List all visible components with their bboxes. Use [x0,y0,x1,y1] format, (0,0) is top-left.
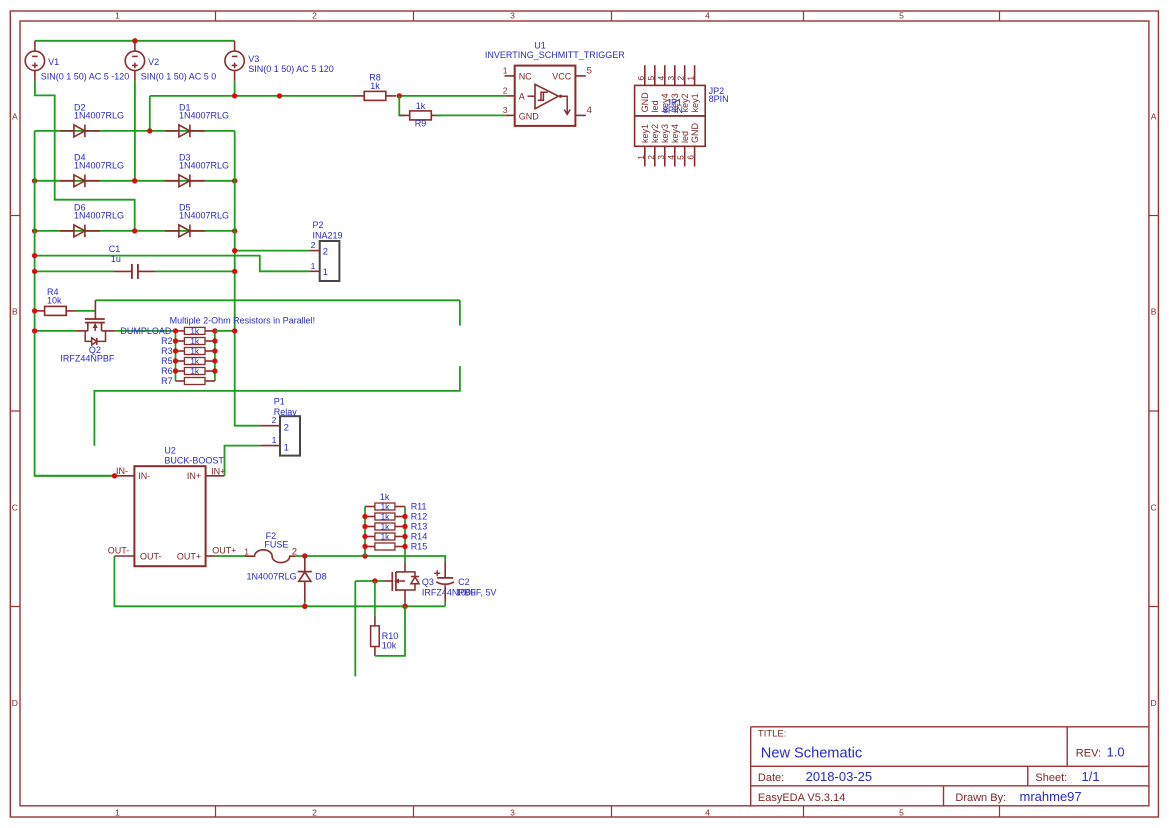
title block frame [751,727,1149,806]
svg-text:1k: 1k [190,327,200,336]
junction phase row [277,93,282,98]
label JP2 [709,86,729,104]
svg-text:B: B [1151,307,1157,317]
svg-text:key1: key1 [690,93,700,112]
junctions dump bank [173,328,218,374]
diode D8 1N4007RLG [247,556,327,606]
svg-text:100uF, 5V: 100uF, 5V [456,587,497,597]
svg-text:6: 6 [636,76,646,81]
svg-text:1: 1 [311,261,316,271]
svg-text:2: 2 [312,11,317,21]
svg-text:R6: R6 [161,366,173,376]
net label IN- left [116,466,128,476]
svg-text:1k: 1k [381,522,391,531]
svg-text:1k: 1k [190,357,200,366]
svg-text:GND: GND [640,92,650,113]
wire gate hang down [354,581,356,676]
svg-text:1: 1 [244,546,249,556]
svg-text:3: 3 [656,155,666,160]
svg-text:P2: P2 [313,220,324,230]
wire fuse to node [296,555,365,557]
wire V3 down [234,81,236,96]
svg-text:D: D [1151,698,1157,708]
fuse F2 [244,531,297,563]
svg-text:2: 2 [323,246,328,257]
wire V1 to D6 row [35,81,135,231]
svg-text:1: 1 [686,76,696,81]
svg-text:2: 2 [312,807,317,817]
svg-text:INVERTING_SCHMITT_TRIGGER: INVERTING_SCHMITT_TRIGGER [485,50,625,60]
wire Q3 source to row [404,602,406,607]
wire top rail V1-V3 [35,40,235,42]
svg-text:EasyEDA V5.3.14: EasyEDA V5.3.14 [758,792,845,804]
svg-text:2: 2 [284,423,289,434]
resistor R6 dump bank [161,366,215,376]
svg-text:Q3: Q3 [422,577,434,587]
wire IN- from rail [35,475,115,477]
svg-text:1k: 1k [381,512,391,521]
svg-text:4: 4 [656,76,666,81]
svg-text:1k: 1k [190,337,200,346]
svg-text:OUT+: OUT+ [212,545,236,555]
svg-text:Drawn By:: Drawn By: [955,792,1006,804]
diode D5 1N4007RLG [165,203,229,238]
diode D6 1N4007RLG [60,203,124,238]
svg-text:BUCK-BOOST: BUCK-BOOST [164,456,224,466]
svg-text:D8: D8 [315,571,327,581]
resistor R15 1k [365,542,427,552]
diode D3 1N4007RLG [165,152,229,187]
net label OUT+ [212,545,236,555]
svg-text:IN+: IN+ [187,471,201,481]
resistor R8 1k [354,73,396,101]
wire bank2 rails [365,507,405,563]
junction R4 left [32,308,37,313]
diode D2 1N4007RLG [60,103,124,138]
title text [758,728,862,761]
svg-text:1N4007RLG: 1N4007RLG [179,211,229,221]
net label OUT- [108,545,130,555]
voltage source V1 [25,41,129,82]
wire V2 down [134,81,136,181]
svg-text:C: C [12,502,18,512]
junction IN- [112,473,117,478]
svg-text:DUMPLOAD: DUMPLOAD [120,326,172,336]
date text [758,769,872,784]
svg-text:C2: C2 [458,577,470,587]
net label IN+ right [211,466,225,476]
svg-text:R7: R7 [161,376,173,386]
transistor Q2 IRFZ44NPBF [60,300,115,363]
wire jog to D2 row [149,96,151,131]
wire OUT+ to fuse [216,555,247,557]
resistor R1 dump bank [176,327,215,336]
wire R4 to gate [76,310,96,312]
svg-text:1N4007RLG: 1N4007RLG [247,571,297,581]
svg-text:1k: 1k [416,101,426,111]
wire P2 pin2 [235,250,310,252]
svg-text:Multiple 2-Ohm Resistors in Pa: Multiple 2-Ohm Resistors in Parallel! [170,316,316,326]
svg-text:V2: V2 [148,57,159,67]
resistor R2 dump bank [161,336,215,346]
junction D2 row [147,128,152,133]
resistor R9 1k [399,101,441,128]
svg-text:1: 1 [115,807,120,817]
svg-text:1: 1 [272,435,277,445]
svg-text:key3: key3 [660,124,670,143]
svg-text:R10: R10 [382,631,399,641]
wire row B right [155,270,234,272]
wire dumpload row left [35,330,76,332]
svg-text:5: 5 [587,65,592,76]
svg-text:2018-03-25: 2018-03-25 [806,769,873,784]
svg-text:Date:: Date: [758,772,784,784]
junctions bank2 [362,514,407,549]
wire down to R9 [399,96,405,116]
svg-text:R5: R5 [161,356,173,366]
junctions D4 row [32,178,238,183]
svg-text:8PIN: 8PIN [663,105,683,115]
svg-text:SIN(0 1 50) AC 5 120: SIN(0 1 50) AC 5 120 [248,64,334,74]
svg-text:C1: C1 [109,244,121,254]
svg-text:A: A [1151,112,1157,122]
svg-text:OUT+: OUT+ [177,552,201,562]
svg-text:U2: U2 [164,445,176,455]
easyeda text [758,792,845,804]
svg-text:IN+: IN+ [211,466,225,476]
svg-text:TITLE:: TITLE: [758,728,787,739]
svg-text:5: 5 [646,76,656,81]
svg-text:SIN(0 1 50) AC 5 -120: SIN(0 1 50) AC 5 -120 [41,71,130,81]
svg-text:led: led [650,100,660,112]
junctions D6 row [32,228,238,233]
diode D1 1N4007RLG [165,103,229,138]
svg-text:New Schematic: New Schematic [761,746,862,762]
svg-text:4: 4 [705,11,710,21]
svg-text:R2: R2 [161,336,173,346]
wire dump bank rails [176,331,215,381]
connector JP2/JP1 8PIN header [635,65,706,166]
drawnby text [955,789,1081,804]
svg-text:INA219: INA219 [313,230,343,240]
svg-text:2: 2 [646,155,656,160]
wire diode row 2 [35,180,235,182]
svg-text:10k: 10k [382,640,397,650]
svg-text:VCC: VCC [552,72,572,82]
svg-text:1N4007RLG: 1N4007RLG [179,161,229,171]
resistor R12 1k [365,512,427,522]
svg-text:C: C [1151,502,1157,512]
resistor R5 dump bank [161,356,215,366]
svg-text:P1: P1 [274,396,285,406]
wire left rail [35,131,115,476]
junction bank left rail bottom [362,553,367,558]
svg-text:5: 5 [899,807,904,817]
svg-text:1: 1 [323,267,328,278]
svg-text:2: 2 [676,76,686,81]
svg-text:4: 4 [587,105,592,116]
svg-text:3: 3 [510,807,515,817]
svg-text:IN-: IN- [138,471,150,481]
label 1k top [380,492,390,502]
junction row A left [32,253,37,258]
wire mid row [94,366,460,446]
svg-text:1N4007RLG: 1N4007RLG [74,211,124,221]
wire right rail [235,131,261,426]
svg-text:10k: 10k [47,296,62,306]
svg-text:5: 5 [899,11,904,21]
svg-text:1u: 1u [111,254,121,264]
connector P2 INA219 [309,220,342,281]
junction dumpload left rail [32,328,37,333]
wire R9 to U1.GND [436,114,506,116]
junction Q3 source [402,604,407,609]
svg-text:A: A [12,112,18,122]
junction R8 output [397,93,402,98]
svg-text:R11: R11 [411,502,427,512]
svg-text:V3: V3 [248,54,259,64]
svg-text:3: 3 [510,11,515,21]
junction dumpload right rail [232,328,237,333]
wire diode row 3 [35,230,235,232]
svg-text:SIN(0 1 50) AC 5 0: SIN(0 1 50) AC 5 0 [141,71,217,81]
svg-text:U1: U1 [534,41,546,51]
svg-text:R14: R14 [411,532,428,542]
junction P2 pin2 rail [232,248,237,253]
svg-text:REV:: REV: [1076,748,1101,760]
wire bank to rail [215,330,235,332]
diode D4 1N4007RLG [60,152,124,187]
svg-text:mrahme97: mrahme97 [1020,789,1082,804]
svg-text:1/1: 1/1 [1082,769,1100,784]
svg-text:1k: 1k [370,81,380,91]
svg-text:1k: 1k [381,502,391,511]
svg-text:1: 1 [503,65,508,75]
svg-text:1N4007RLG: 1N4007RLG [74,111,124,121]
wire gate row Q3 [355,580,383,582]
svg-text:4: 4 [666,155,676,160]
svg-text:R3: R3 [161,346,173,356]
svg-text:1: 1 [284,443,289,454]
svg-text:1: 1 [636,155,646,160]
svg-text:OUT-: OUT- [140,552,162,562]
svg-text:1k: 1k [190,347,200,356]
svg-text:led: led [680,131,690,143]
svg-text:GND: GND [519,112,540,122]
note multiple resistors [170,316,316,326]
svg-text:2: 2 [311,240,316,250]
svg-text:5: 5 [676,155,686,160]
svg-text:1N4007RLG: 1N4007RLG [74,161,124,171]
resistor R10 10k [371,581,399,656]
wire R8 to U1.A [397,95,506,97]
wire phase node row [150,95,355,97]
module U2 BUCK-BOOST [114,445,224,566]
svg-text:FUSE: FUSE [264,539,288,549]
svg-text:2: 2 [503,85,508,95]
svg-text:key4: key4 [670,124,680,143]
svg-text:V1: V1 [48,57,59,67]
svg-text:4: 4 [705,807,710,817]
junction top rail at V2 [132,38,137,43]
wire R10 bottom [375,606,405,656]
wire gate hang right [459,300,461,325]
junction V3 node [232,93,237,98]
svg-text:A: A [519,92,525,102]
svg-text:1k: 1k [190,367,200,376]
svg-text:IN-: IN- [116,466,128,476]
svg-text:GND: GND [690,123,700,144]
svg-text:3: 3 [666,76,676,81]
svg-text:1N4007RLG: 1N4007RLG [179,111,229,121]
op-amp U1 INVERTING_SCHMITT_TRIGGER [485,41,625,126]
wire P1 pin1 to U2 IN+ [225,446,261,476]
svg-text:8PIN: 8PIN [709,94,729,104]
capacitor C1 1u [109,244,156,279]
junction gate R10 [372,578,377,583]
svg-text:key1: key1 [640,124,650,143]
svg-text:1.0: 1.0 [1107,745,1125,760]
svg-text:R13: R13 [411,522,428,532]
resistor R4 10k [34,287,76,315]
wire row A to P2 pin1 [35,256,310,272]
svg-text:1: 1 [115,11,120,21]
sheet text [1035,769,1099,784]
svg-text:1k: 1k [380,492,390,502]
wire gate top row [95,299,460,301]
svg-text:D: D [12,698,18,708]
junction D8 top [302,553,307,558]
svg-text:Relay: Relay [274,407,298,417]
svg-text:B: B [12,307,18,317]
svg-text:IRFZ44NPBF: IRFZ44NPBF [60,354,115,364]
svg-text:6: 6 [686,155,696,160]
resistor R7 dump bank [161,376,215,386]
resistor R3 dump bank [161,346,215,356]
rev text [1076,745,1125,760]
svg-text:R15: R15 [411,542,428,552]
svg-text:R9: R9 [415,118,427,128]
voltage source V3 [225,41,334,81]
svg-text:Sheet:: Sheet: [1035,772,1067,784]
resistor R14 1k [365,532,427,542]
transistor Q3 IRFZ44NPBF [384,562,477,602]
capacitor C2 100uF 5V [434,562,496,606]
label JP1 overlap [663,97,683,115]
voltage source V2 [125,41,216,82]
svg-text:key2: key2 [650,124,660,143]
svg-text:3: 3 [503,105,508,115]
wire row B left [35,270,114,272]
svg-text:1k: 1k [381,532,391,541]
svg-text:NC: NC [519,72,532,82]
wire node to C2 corner [365,556,445,562]
wire diode row 1 [35,130,235,132]
junction D8 bottom [302,604,307,609]
resistor R11 1k [365,502,427,512]
wire OUT- down [114,556,445,606]
svg-text:R12: R12 [411,512,428,522]
resistor R13 1k [365,522,427,532]
svg-text:OUT-: OUT- [108,545,130,555]
wire Q2 to bank [115,330,176,332]
net label DUMPLOAD [120,326,172,336]
connector P1 Relay [260,396,300,455]
junctions row B [32,269,238,274]
